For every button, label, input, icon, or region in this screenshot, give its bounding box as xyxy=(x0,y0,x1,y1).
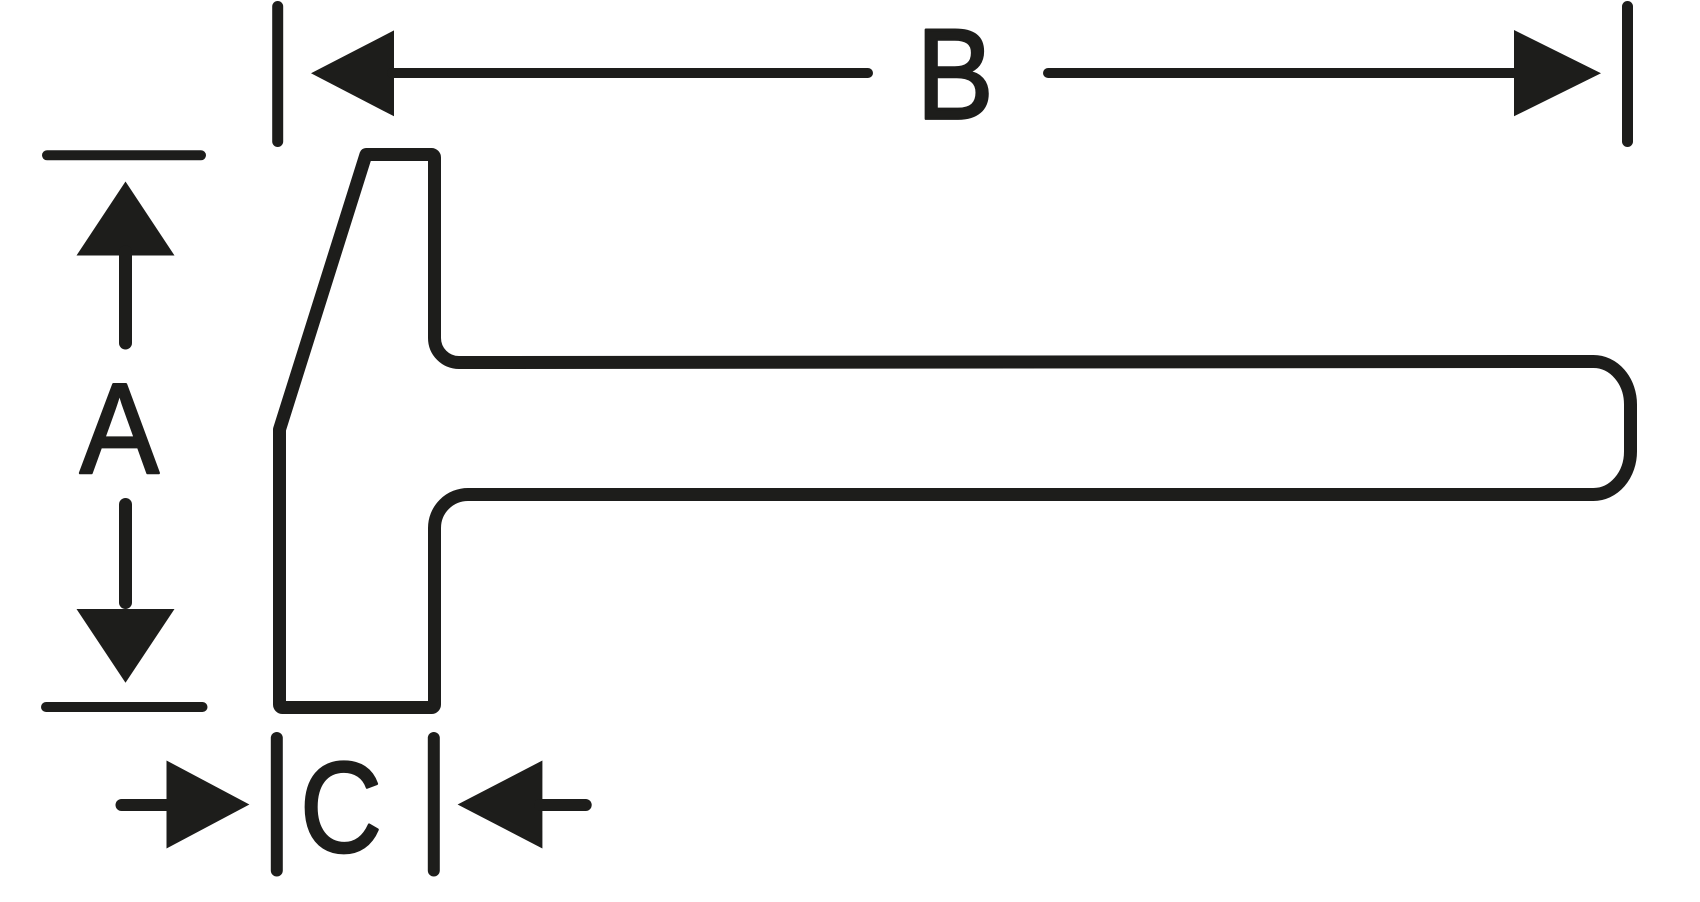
hammer outline xyxy=(280,155,1631,708)
dimension A: down arrowhead xyxy=(77,609,175,683)
dimension A: top extension line xyxy=(47,150,201,160)
svg-text:A: A xyxy=(80,357,159,501)
svg-text:C: C xyxy=(300,735,382,879)
dimension A: upper shaft xyxy=(119,252,132,343)
dimension B: left arrowhead xyxy=(311,30,394,116)
dimension A: up arrowhead xyxy=(77,182,175,256)
dimension C: left (right-pointing) arrowhead xyxy=(167,761,250,849)
dimension C: right extension line xyxy=(428,738,440,871)
svg-text:B: B xyxy=(916,3,993,147)
dimension C: left extension line xyxy=(271,738,283,871)
dimension B: left extension line xyxy=(272,7,283,142)
dimension A: bottom extension line xyxy=(46,702,203,712)
dimension B: right extension line xyxy=(1622,7,1633,142)
dimension A: lower shaft xyxy=(119,505,132,603)
dimension B: right shaft xyxy=(1048,68,1516,78)
dimension B: right arrowhead xyxy=(1514,30,1601,116)
dimension B: left shaft xyxy=(392,68,868,78)
dimension C: left shaft xyxy=(122,799,173,811)
dimension C: right (left-pointing) arrowhead xyxy=(458,761,543,849)
dimension C: right shaft xyxy=(540,799,586,811)
